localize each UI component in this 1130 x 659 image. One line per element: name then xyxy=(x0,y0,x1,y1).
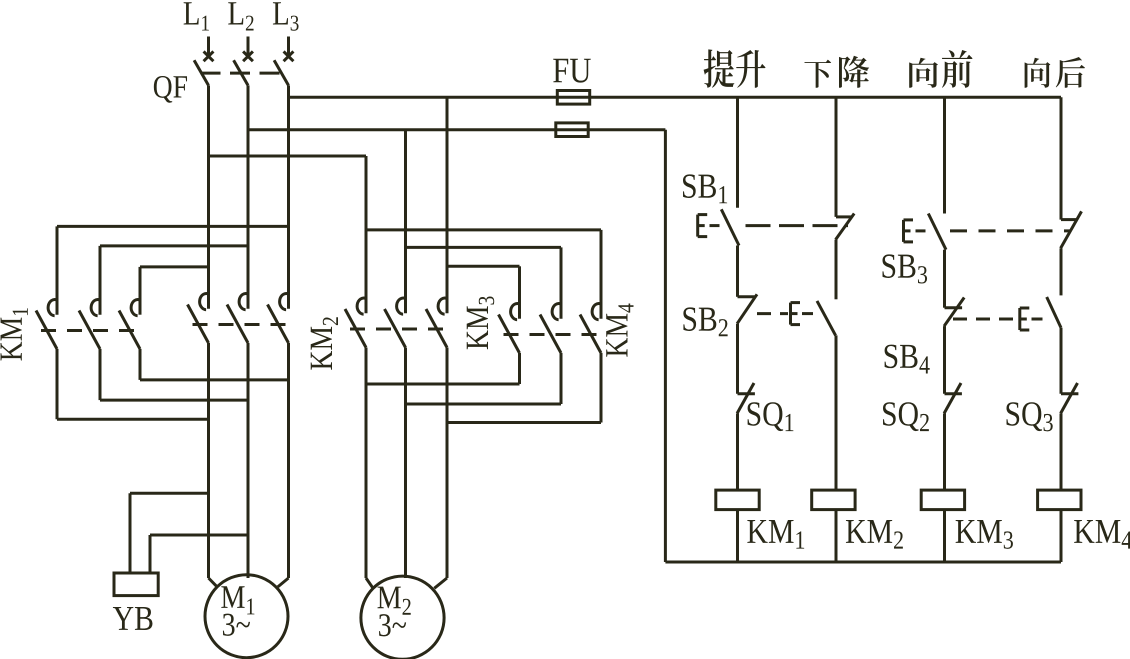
wire phase L3 feeder down to KM3 contact 3 xyxy=(446,97,449,313)
label L1 xyxy=(184,2,209,30)
wire KM4 contact 3 bottom lead xyxy=(600,353,603,423)
wire bank-A bottom bridge 1 xyxy=(57,418,209,421)
wire bank-B bottom bridge 3 xyxy=(447,421,601,424)
contactor KM3 linkage dashed bar xyxy=(350,328,444,331)
contactor KM2 main contact 2 xyxy=(227,294,248,343)
wire KM3 contact output down to M2 xyxy=(446,348,449,579)
contactor coil KM1 xyxy=(716,490,759,510)
wire M1 left funnel xyxy=(209,578,218,587)
wire phase L2 feeder down to KM3 contact 2 xyxy=(404,130,407,314)
contactor KM3 main contact 1 xyxy=(345,298,366,347)
wire phase L3 down to KM2 xyxy=(287,85,290,308)
wire M1 right funnel xyxy=(278,578,289,587)
wire bank-B top bridge 1 xyxy=(366,228,601,231)
pushbutton SB3 NO contact (column3) xyxy=(928,214,946,250)
label FU xyxy=(553,59,591,83)
wire phase L1 tap to bank B xyxy=(209,155,367,158)
wire control-circuit left return xyxy=(664,130,667,562)
label coil KM3 xyxy=(956,520,1013,549)
label KM2 (contacts) xyxy=(311,317,338,369)
wire column3 SQ2-coil xyxy=(943,413,946,490)
label SB3 xyxy=(882,254,927,283)
label M2 xyxy=(378,587,411,615)
wire YB tap upper xyxy=(130,492,209,495)
brake solenoid YB xyxy=(114,573,158,596)
motor M2 xyxy=(361,576,444,659)
pushbutton SB3 actuator E xyxy=(904,220,914,242)
wire column2 SB1-SB2 xyxy=(835,240,838,300)
contactor KM2 main contact 1 xyxy=(188,294,209,343)
wire phase L2 down to KM2 xyxy=(247,85,250,308)
wire column1 drop xyxy=(736,97,739,207)
wire bank-B top bridge 3 xyxy=(447,265,520,268)
wire column1 SQ1-coil xyxy=(736,413,739,490)
SB2 linkage dashed right xyxy=(802,312,820,315)
heading text 前 xyxy=(942,50,973,88)
wire coil to bottom rail xyxy=(835,510,838,562)
limit switch SQ3 NC contact xyxy=(1061,383,1079,413)
wire bank-A top bridge 2 xyxy=(100,244,248,247)
wire KM4 contact 1 top lead xyxy=(518,266,521,318)
label KM3 (contacts) xyxy=(467,296,495,349)
wire KM4 contact 2 top lead xyxy=(560,247,563,318)
wire coil to bottom rail xyxy=(943,510,946,562)
circuit breaker QF pole 1 xyxy=(194,37,213,86)
SB2 linkage dashed left xyxy=(757,312,788,315)
pushbutton SB4 actuator E xyxy=(1020,308,1030,330)
heading text 向 xyxy=(909,58,938,88)
label SB1 xyxy=(683,174,727,203)
contactor KM1 main contact 2 xyxy=(79,300,100,349)
wire column3 SB3-SB4 xyxy=(943,250,946,308)
contactor KM4 main contact 3 xyxy=(580,304,601,353)
wire bank-B bottom bridge 2 xyxy=(406,403,562,406)
label M1 3~ xyxy=(223,614,250,636)
pushbutton SB2 actuator E xyxy=(791,303,801,325)
circuit breaker QF pole 3 xyxy=(274,37,293,86)
wire KM4 contact 3 top lead xyxy=(600,230,603,319)
label L3 xyxy=(273,2,299,30)
pushbutton SB1 NC contact (column2) xyxy=(836,214,855,240)
motor M1 xyxy=(205,575,288,658)
wire phase L1 down to KM2 xyxy=(207,85,210,308)
fuse FU element 2 xyxy=(556,123,588,137)
limit switch SQ1 NC contact xyxy=(737,383,755,413)
wire column4 SQ3-coil xyxy=(1060,413,1063,490)
wire YB right lead xyxy=(149,535,152,573)
wire bank-B bottom bridge 1 xyxy=(366,383,520,386)
pushbutton SB1 NO contact (column1) xyxy=(721,209,739,245)
wire bank-B top bridge 2 xyxy=(406,246,562,249)
QF linkage dashed bar xyxy=(201,72,282,75)
wire KM1 contact 2 top lead xyxy=(99,246,102,315)
SB4 linkage dashed right xyxy=(1032,318,1044,321)
label QF xyxy=(154,76,187,103)
wire KM2 contact output down to M1 xyxy=(207,343,210,578)
label coil KM2 xyxy=(846,520,903,549)
wire column3 SB4-SQ2 xyxy=(943,326,946,394)
contactor KM2 main contact 3 xyxy=(268,294,289,343)
label KM1 (contacts) xyxy=(1,308,28,360)
wire column4 SB4-SQ3 xyxy=(1060,328,1063,394)
wire bank-A top bridge 3 xyxy=(140,265,209,268)
heading text 升 xyxy=(736,50,765,88)
heading text 后 xyxy=(1056,57,1085,88)
wire coil to bottom rail xyxy=(736,510,739,562)
wire column2 SB2-coil xyxy=(835,335,838,490)
heading text 下 xyxy=(804,60,831,88)
wire column2 drop xyxy=(835,97,838,217)
contactor KM4 main contact 1 xyxy=(499,304,520,353)
label M1 xyxy=(221,586,254,614)
label L2 xyxy=(228,2,253,30)
label KM4 (contacts) xyxy=(606,304,633,357)
SB4 linkage dashed left xyxy=(953,318,1017,321)
contactor KM2 linkage dashed bar xyxy=(193,323,286,326)
SB1 link dash stub xyxy=(710,224,720,227)
circuit breaker QF pole 2 xyxy=(234,37,253,86)
contactor coil KM4 xyxy=(1038,490,1081,510)
wire KM1 contact 1 bottom lead xyxy=(56,349,59,419)
contactor KM1 linkage dashed bar xyxy=(41,329,137,332)
wire feeder down to KM3 contact 1 xyxy=(365,156,368,313)
wire second rail from QF pole2 xyxy=(248,128,665,131)
heading text 降 xyxy=(839,56,869,88)
wire coil to bottom rail xyxy=(1060,510,1063,562)
wire M2 right funnel xyxy=(434,578,447,588)
label SQ2 xyxy=(883,402,929,431)
contactor coil KM3 xyxy=(921,490,964,510)
wire KM2 contact output down to M1 xyxy=(247,343,250,578)
wire bank-A bottom bridge 3 xyxy=(140,378,289,381)
contactor KM4 main contact 2 xyxy=(540,304,561,353)
label SB2 xyxy=(683,307,727,336)
label SQ1 xyxy=(748,402,794,431)
contactor KM3 main contact 3 xyxy=(426,298,447,347)
wire M2 left funnel xyxy=(366,578,373,588)
label coil KM4 xyxy=(1074,520,1130,549)
label SQ3 xyxy=(1006,402,1052,431)
contactor coil KM2 xyxy=(812,490,855,510)
contactor KM1 main contact 3 xyxy=(119,300,140,349)
wire KM4 contact 2 bottom lead xyxy=(560,353,563,404)
label SB4 xyxy=(885,345,930,374)
fuse FU element 1 xyxy=(557,91,589,105)
wire YB left lead xyxy=(129,493,132,573)
wire top rail from QF pole3 to control columns xyxy=(289,96,1062,99)
contactor KM3 main contact 2 xyxy=(385,298,406,347)
pushbutton SB4 NO contact (column4) xyxy=(1047,297,1061,328)
wire YB tap lower xyxy=(150,534,248,537)
wire bank-A top bridge 1 xyxy=(57,225,289,228)
pushbutton SB1 actuator E xyxy=(698,215,708,237)
label M2 3~ xyxy=(379,614,406,636)
SB3 link dash stub xyxy=(916,229,926,232)
wire KM3 contact output down to M2 xyxy=(365,348,368,579)
wire column3 drop xyxy=(943,97,946,213)
wire KM3 contact output down to M2 xyxy=(404,348,407,579)
pushbutton SB2 NC contact (column1) xyxy=(737,294,757,323)
wire column4 drop xyxy=(1060,97,1063,219)
label coil KM1 xyxy=(747,520,804,549)
pushbutton SB4 NC contact (column3) xyxy=(944,298,964,327)
SB1 linkage dashed xyxy=(746,224,849,227)
wire KM1 contact 3 bottom lead xyxy=(139,349,142,380)
wire KM1 contact 1 top lead xyxy=(56,226,59,314)
wire bank-A bottom bridge 2 xyxy=(100,399,248,402)
wire column4 SB3-SB4 xyxy=(1060,248,1063,295)
wire KM4 contact 1 bottom lead xyxy=(518,353,521,384)
label YB xyxy=(113,607,153,630)
heading text 向 xyxy=(1025,58,1051,88)
contactor KM4 linkage dashed bar xyxy=(504,333,599,336)
wire column1 SB1-SB2 xyxy=(736,246,739,297)
heading text 提 xyxy=(704,49,735,87)
wire KM1 contact 3 top lead xyxy=(139,267,142,315)
wire KM1 contact 2 bottom lead xyxy=(99,349,102,400)
wire control bottom rail xyxy=(665,561,1061,564)
wire column1 SB2-SQ1 xyxy=(736,324,739,394)
SB3 linkage dashed xyxy=(950,229,1071,232)
pushbutton SB2 NO contact (column2) xyxy=(817,301,836,336)
limit switch SQ2 NC contact xyxy=(944,383,962,413)
pushbutton SB3 NC contact (column4) xyxy=(1061,211,1082,248)
wire KM2 contact output down to M1 xyxy=(287,343,290,578)
contactor KM1 main contact 1 xyxy=(36,300,57,349)
